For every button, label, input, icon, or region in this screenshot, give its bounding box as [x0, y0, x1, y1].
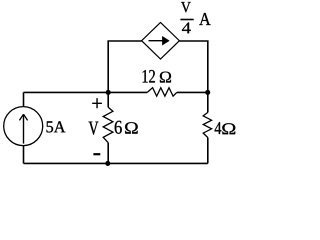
label A (unit of dependent source) — [199, 13, 210, 25]
label V (fraction numerator) — [181, 2, 191, 12]
resistor R2 6 ohm zigzag — [103, 107, 113, 142]
label plus sign (polarity of V) — [92, 98, 102, 108]
node C junction dot (top of 4 ohm) — [205, 90, 210, 95]
fraction bar of V/4 — [180, 19, 193, 21]
resistor R1 12 ohm zigzag — [147, 88, 177, 96]
wire top-left segment (node B up and right to diamond left vertex) — [108, 41, 141, 92]
label minus sign (polarity of V) — [93, 153, 100, 155]
label 12 (of 12 ohm) — [143, 70, 155, 83]
dependent current source arrow head (filled) — [162, 36, 169, 45]
current source I1 arrow head (open chevron) — [19, 114, 27, 120]
wire right branch top lead — [207, 92, 209, 112]
label ohm symbol (of 6 ohm) — [125, 122, 138, 133]
wire middle branch top lead — [107, 92, 109, 107]
wire top-right segment (diamond right vertex to node C) — [179, 41, 207, 92]
label 4 (fraction denominator) — [182, 23, 191, 34]
wire bottom — [24, 162, 208, 164]
label 5A — [47, 121, 66, 132]
label 4 (of 4 ohm) — [215, 122, 222, 134]
node B junction dot (top of 6 ohm) — [106, 90, 111, 95]
wire middle branch bottom lead — [107, 143, 109, 164]
dependent current source: diamond body — [142, 22, 180, 59]
wire right branch bottom lead — [207, 138, 209, 164]
wire middle-left (left branch to 12 ohm resistor) — [24, 91, 148, 93]
resistor R3 4 ohm zigzag — [203, 112, 211, 137]
node D junction dot (bottom of 6 ohm) — [105, 161, 110, 166]
label ohm symbol (of 12 ohm) — [160, 72, 171, 83]
current source I1 arrow shaft — [23, 116, 25, 144]
wire left branch top — [23, 92, 25, 106]
wire middle-right (12 ohm to node C) — [177, 91, 208, 93]
current source I1 5A: circle — [4, 107, 43, 146]
label V (voltage across 6 ohm) — [89, 122, 99, 135]
label ohm symbol (of 4 ohm) — [222, 123, 235, 134]
label 6 (of 6 ohm) — [115, 121, 122, 134]
wire left branch bottom — [23, 145, 25, 163]
dependent current source arrow shaft — [149, 40, 164, 42]
